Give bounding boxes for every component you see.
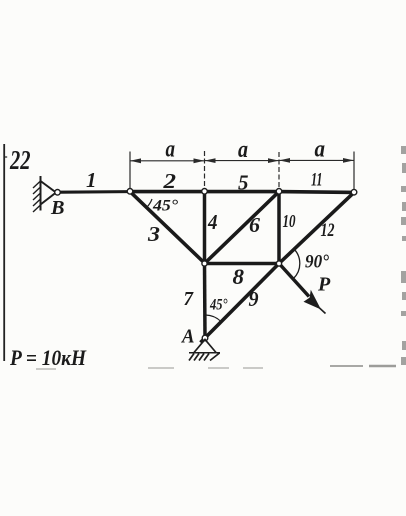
faint scan artifacts bottom row (36, 366, 396, 369)
member 4 (vertical) (203, 192, 207, 264)
svg-text:a: a (315, 137, 326, 163)
left margin border line (4, 144, 7, 361)
svg-text:22: 22 (9, 145, 30, 175)
svg-text:P: P (317, 274, 331, 296)
svg-text:A: A (180, 326, 194, 348)
svg-text:a: a (166, 137, 176, 163)
member 8 (bottom horizontal) (205, 262, 280, 266)
svg-text:11: 11 (311, 170, 323, 191)
node A circle (202, 335, 208, 341)
member 10 (vertical) (277, 192, 281, 264)
faint scan artifacts right edge (401, 146, 406, 365)
support A ground line (189, 352, 220, 354)
svg-text:45°: 45° (152, 198, 179, 215)
force P arrow (280, 265, 326, 314)
svg-text:6: 6 (249, 213, 261, 237)
member 5 (top chord) (204, 190, 280, 194)
support B wall line (40, 176, 42, 211)
svg-text:3: 3 (147, 222, 160, 246)
svg-text:7: 7 (184, 288, 194, 310)
support A hatching (189, 353, 220, 361)
support A triangle (194, 340, 216, 353)
dimension line span 1 with arrows (130, 158, 205, 163)
member 6 (diagonal) (205, 192, 280, 264)
45 degree arc at node A (206, 315, 222, 322)
node circle M2 (276, 261, 281, 266)
svg-text:9: 9 (249, 287, 259, 311)
svg-text:4: 4 (207, 210, 217, 234)
dimension extension tick at node 3 (278, 152, 280, 188)
svg-text:45°: 45° (209, 297, 228, 314)
dimension extension tick at node 2 (204, 151, 206, 188)
member 7 (vertical to A) (203, 264, 207, 339)
dimension line span 2 with arrows (205, 158, 280, 163)
support B hatching (wall) (33, 181, 41, 212)
svg-text:90°: 90° (305, 252, 329, 273)
node circle N3 (276, 189, 282, 195)
dimension line span 3 with arrows (279, 158, 354, 163)
svg-text:8: 8 (233, 264, 245, 289)
svg-text:P = 10кН: P = 10кН (9, 345, 87, 370)
svg-text:1: 1 (86, 168, 97, 192)
dimension extension tick at node 1 (129, 152, 131, 189)
45 degree arc at top-left node (147, 199, 152, 207)
member 11 (top chord) (278, 190, 355, 194)
svg-text:2: 2 (162, 169, 176, 193)
svg-text:a: a (238, 137, 248, 163)
svg-text:5: 5 (238, 171, 249, 195)
node circle N4 (351, 189, 357, 195)
support B triangle (41, 181, 57, 205)
svg-text:10: 10 (283, 211, 296, 231)
node circle M1 (202, 261, 207, 266)
svg-text:12: 12 (321, 220, 335, 241)
svg-text:B: B (50, 197, 65, 219)
node circle N1 (127, 189, 133, 195)
90 degree arc at loaded node (294, 249, 300, 279)
member 12 (diagonal) (279, 192, 354, 263)
member 1 (60, 190, 130, 194)
dimension extension tick at node 4 (353, 152, 355, 190)
member 2 (top chord) (129, 190, 205, 194)
member 3 (diagonal) (130, 192, 205, 264)
member 9 (diagonal from A) (201, 264, 280, 343)
node circle N2 (202, 189, 208, 195)
support B pin circle (55, 190, 61, 196)
